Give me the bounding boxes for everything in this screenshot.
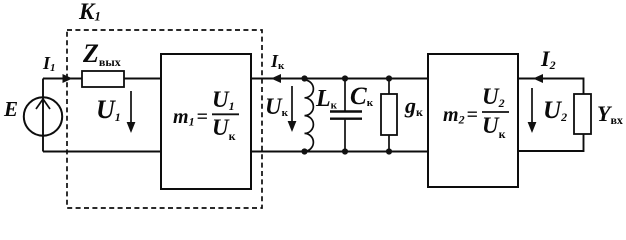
voltage arrow U1 down <box>127 91 136 133</box>
svg-text:Yвх: Yвх <box>597 101 623 127</box>
svg-text:U1: U1 <box>96 95 121 124</box>
svg-text:I1: I1 <box>42 53 56 74</box>
arrowhead I1 pointing right <box>63 74 73 83</box>
inductor L_k coil <box>305 79 314 152</box>
svg-text:Uк: Uк <box>265 94 289 119</box>
admittance Y_vh body <box>574 94 591 134</box>
svg-text:Zвых: Zвых <box>82 39 121 69</box>
svg-text:I2: I2 <box>540 46 556 72</box>
node dot g_k bottom <box>386 148 392 154</box>
svg-text:gк: gк <box>404 93 423 119</box>
arrowhead I_k pointing left <box>271 74 281 83</box>
wire right bottom from Y_vh to m2 <box>518 134 584 151</box>
arrowhead I2 pointing left <box>533 74 543 83</box>
equation m1 = U1/Uk <box>173 87 239 143</box>
svg-text:E: E <box>3 97 18 121</box>
two-port box m1 <box>161 54 251 189</box>
top rail m1 to m2 <box>251 78 428 80</box>
wire bottom-left rail from E to m1 box <box>43 151 161 153</box>
svg-text:K1: K1 <box>78 0 101 24</box>
capacitor C_k <box>330 79 362 152</box>
node dot L_k top <box>301 75 307 81</box>
equation m2 = U2/Uk <box>443 84 509 141</box>
wire vertical through source E <box>42 79 44 152</box>
svg-text:Lк: Lк <box>315 86 338 112</box>
svg-text:Cк: Cк <box>350 83 374 110</box>
voltage arrow U2 down <box>528 88 537 133</box>
node dot C_k top <box>342 75 348 81</box>
svg-text:U2: U2 <box>543 97 567 124</box>
node dot g_k top <box>386 75 392 81</box>
node dot L_k bottom <box>301 148 307 154</box>
wire right top from m2 to Y_vh <box>518 79 584 95</box>
node dot C_k bottom <box>342 148 348 154</box>
voltage arrow U_k down <box>288 86 297 132</box>
bottom rail m1 to m2 <box>251 151 428 153</box>
dashed box K1 <box>67 30 262 208</box>
conductance g_k body <box>381 79 397 152</box>
source E arrow up inside circle <box>36 99 50 109</box>
resistor Z_vyh body <box>82 71 124 87</box>
wire top-left from source E to Z_vyh <box>43 78 82 80</box>
wire from Z_vyh to m1 box <box>124 78 161 80</box>
two-port box m2 <box>428 54 518 187</box>
svg-text:Iк: Iк <box>270 51 285 72</box>
source E circle <box>24 97 62 135</box>
